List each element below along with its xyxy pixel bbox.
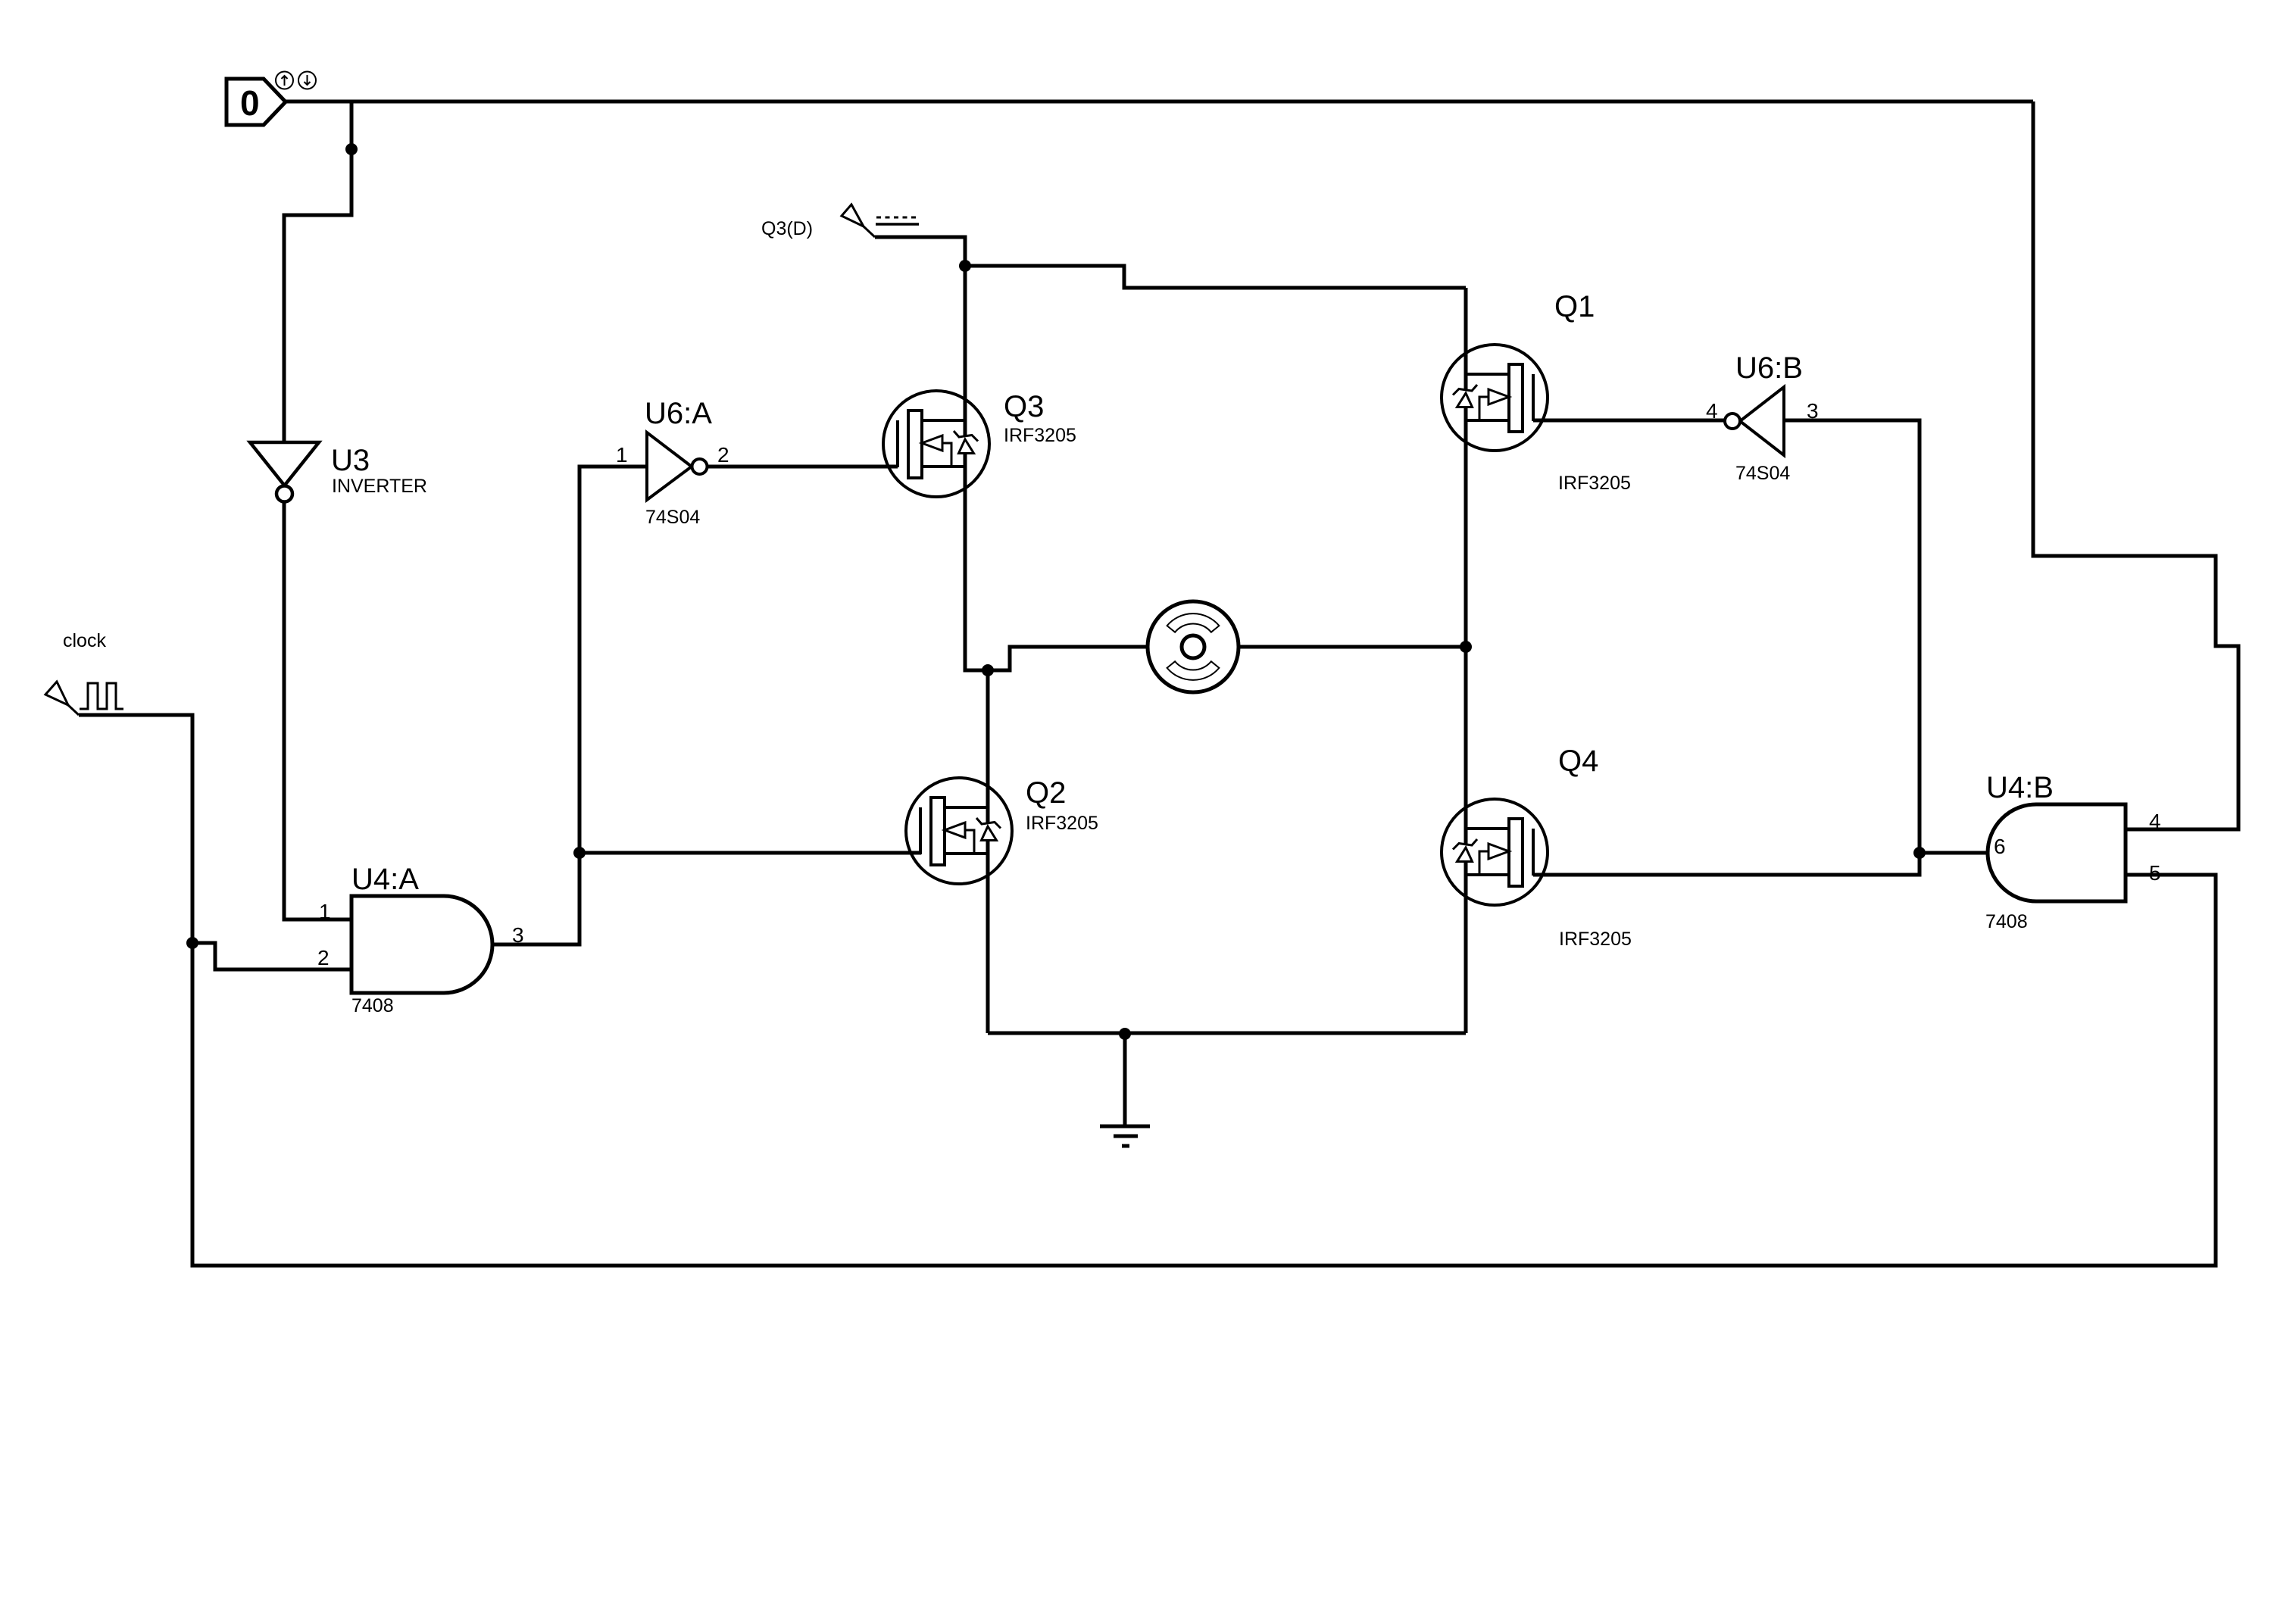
svg-text:1: 1 — [616, 443, 628, 467]
svg-text:4: 4 — [2149, 810, 2161, 833]
svg-text:INVERTER: INVERTER — [332, 476, 427, 497]
svg-text:5: 5 — [2149, 861, 2161, 885]
svg-text:74S04: 74S04 — [1735, 463, 1790, 484]
svg-text:74S04: 74S04 — [645, 507, 700, 528]
svg-text:2: 2 — [717, 443, 729, 467]
svg-text:3: 3 — [1807, 399, 1819, 423]
svg-text:U4:B: U4:B — [1986, 771, 2054, 804]
svg-text:1: 1 — [319, 900, 331, 923]
svg-text:IRF3205: IRF3205 — [1559, 929, 1632, 950]
svg-text:IRF3205: IRF3205 — [1026, 813, 1098, 834]
svg-text:Q3: Q3 — [1004, 390, 1044, 423]
svg-text:4: 4 — [1706, 399, 1718, 423]
svg-text:Q4: Q4 — [1558, 745, 1598, 778]
svg-text:U3: U3 — [331, 444, 370, 477]
svg-text:IRF3205: IRF3205 — [1004, 425, 1076, 446]
svg-text:3: 3 — [512, 923, 524, 947]
svg-text:U6:A: U6:A — [645, 397, 712, 430]
svg-text:clock: clock — [63, 630, 106, 651]
svg-text:IRF3205: IRF3205 — [1558, 473, 1631, 494]
svg-text:6: 6 — [1994, 835, 2006, 858]
svg-text:2: 2 — [317, 946, 330, 969]
svg-text:Q1: Q1 — [1554, 290, 1595, 323]
svg-text:Q2: Q2 — [1026, 776, 1066, 810]
svg-text:7408: 7408 — [1985, 911, 2028, 932]
svg-text:U6:B: U6:B — [1735, 351, 1803, 385]
svg-text:Q3(D): Q3(D) — [761, 218, 813, 239]
svg-text:U4:A: U4:A — [351, 863, 419, 896]
svg-text:7408: 7408 — [351, 995, 394, 1016]
svg-text:0: 0 — [240, 83, 260, 123]
